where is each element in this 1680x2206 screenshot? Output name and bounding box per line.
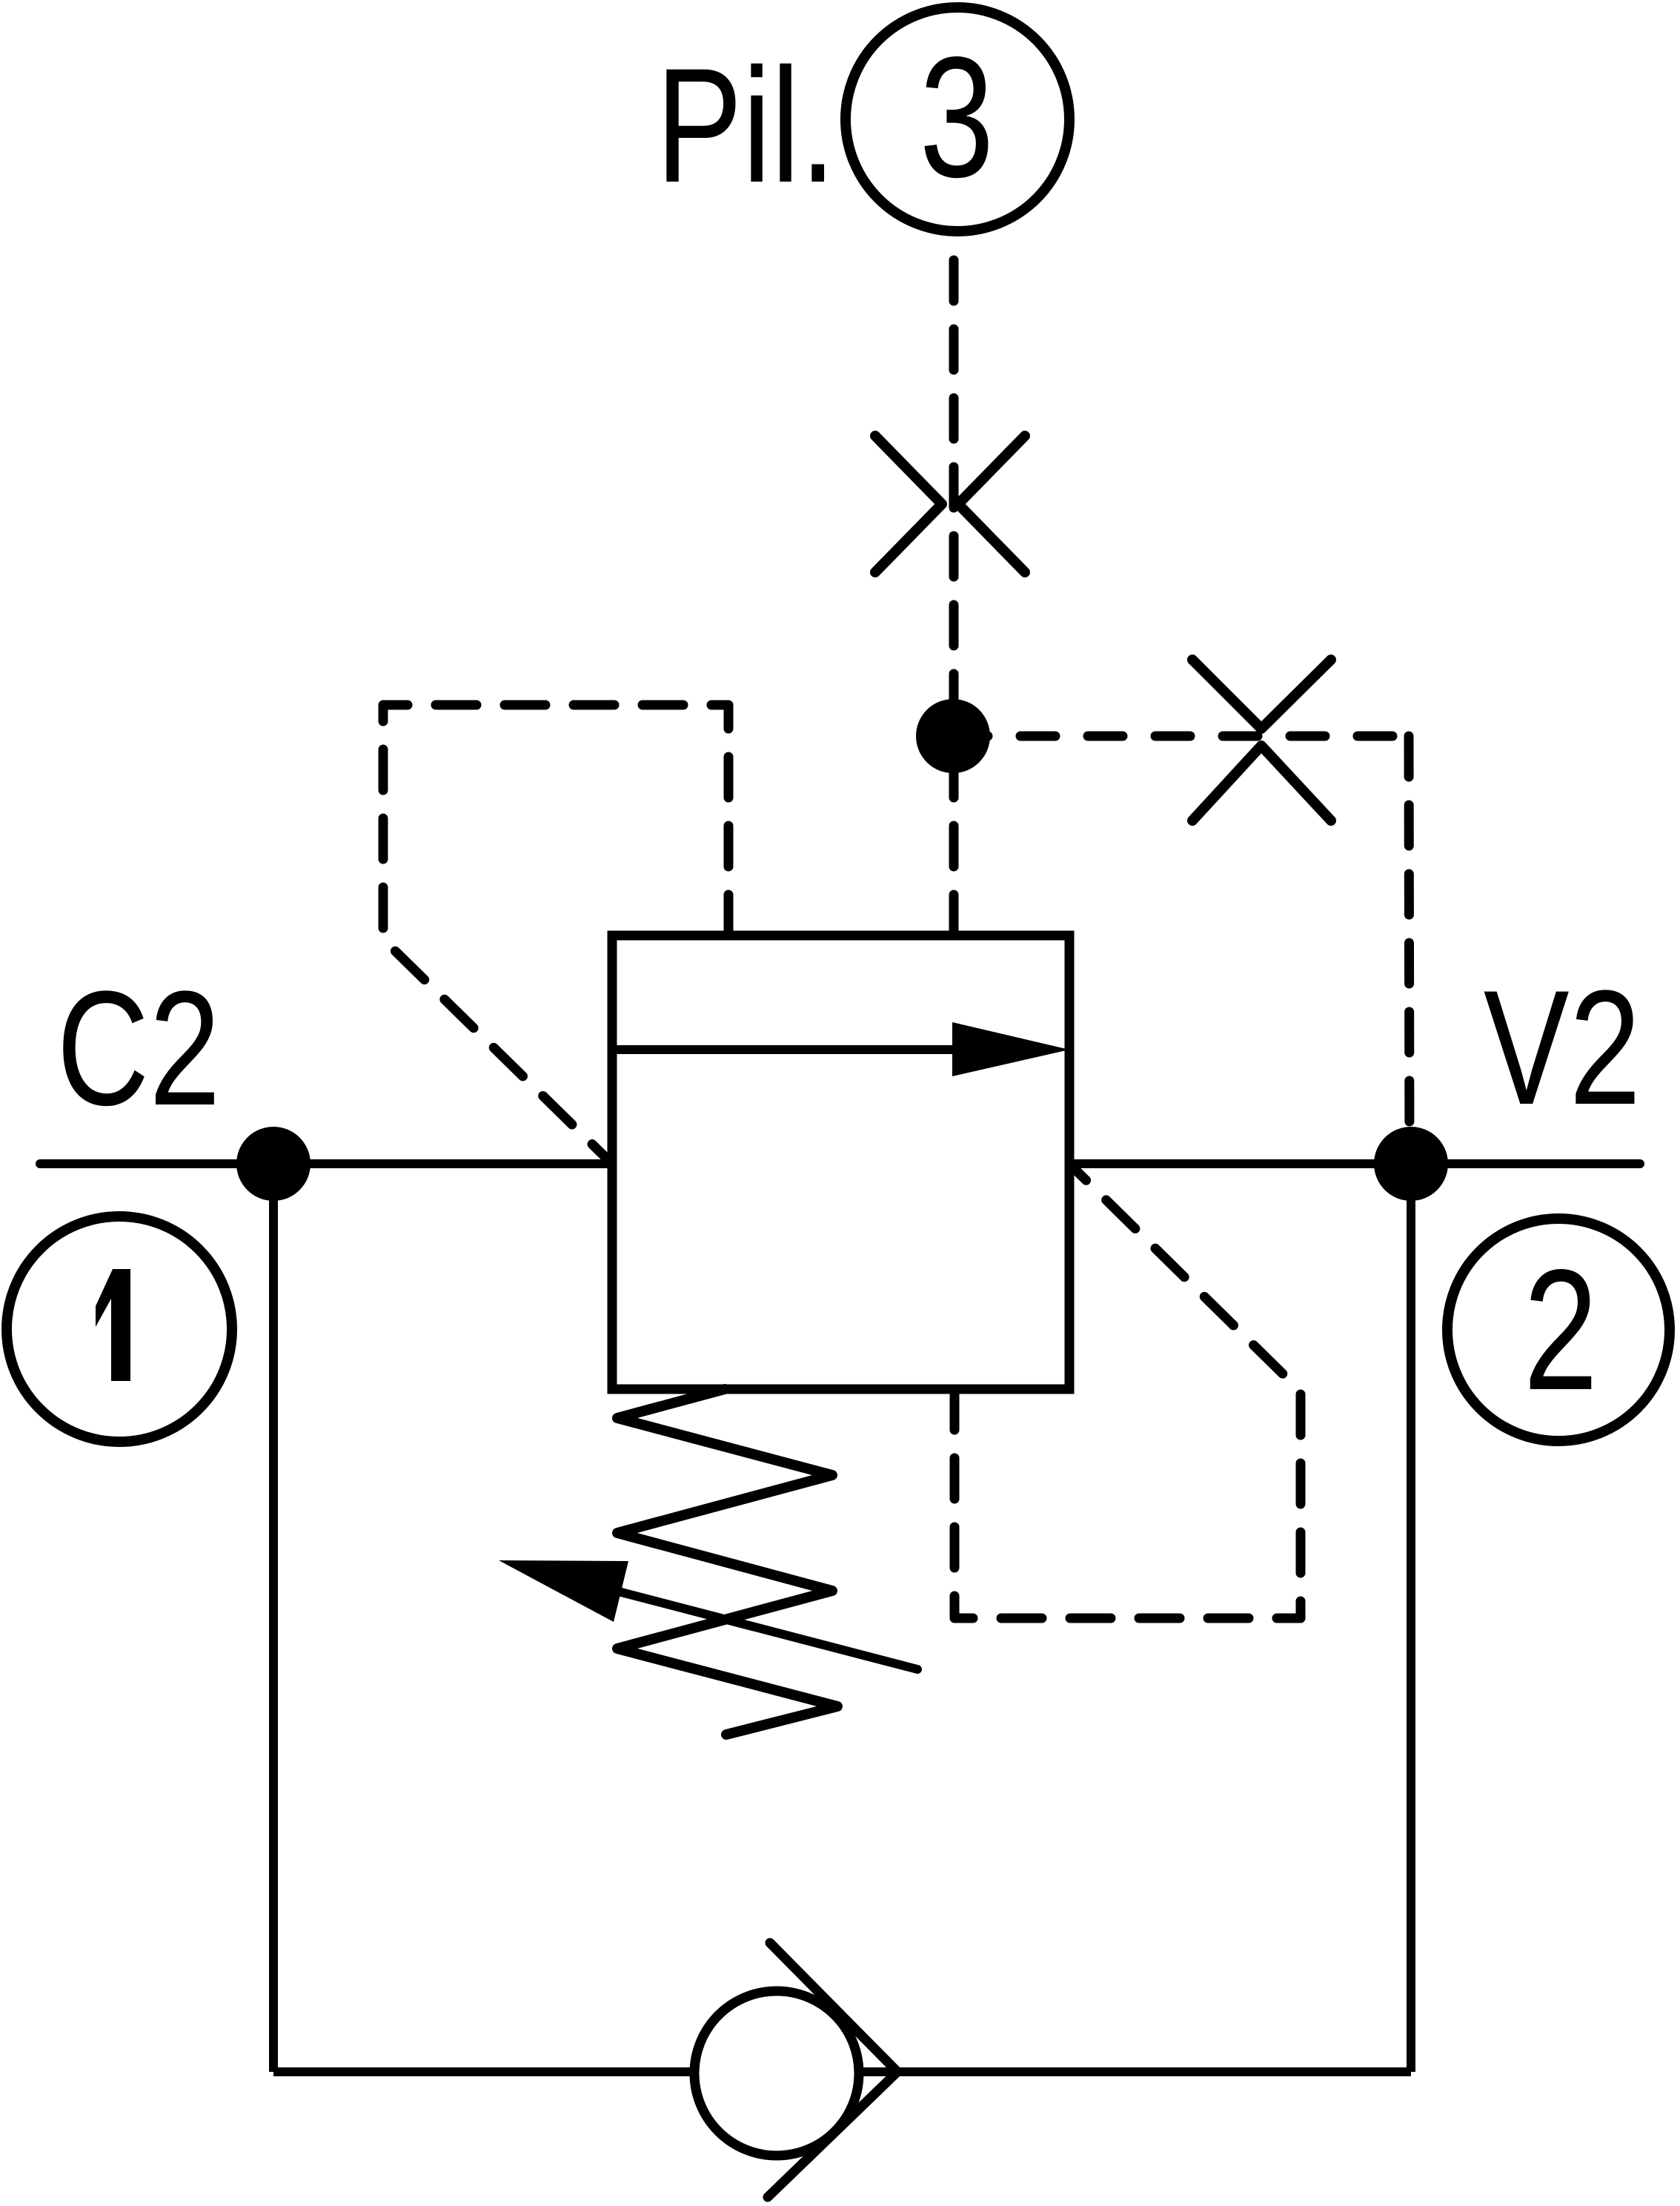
- svg-text:2: 2: [1524, 1234, 1598, 1426]
- wire: dashed pilot loop upper-left: [383, 705, 728, 1164]
- label V2: [1484, 956, 1641, 1138]
- wire: dashed pilot loop lower-right: [954, 1165, 1301, 1618]
- check valve CV1 ball: [694, 1991, 859, 2156]
- spring: [617, 1389, 837, 1735]
- label 1: [96, 1269, 130, 1381]
- node C2: [236, 1127, 311, 1201]
- wire: dashed horizontal from junction to right corner: [953, 732, 1409, 741]
- check valve CV1 seat: [768, 1943, 897, 2197]
- valve body U1 (square): [612, 935, 1069, 1389]
- wire: dashed pilot line from junction down to valve top: [949, 736, 959, 935]
- plugged-port symbol X2 on horizontal dashed line: [1192, 660, 1331, 821]
- svg-text:3: 3: [920, 21, 995, 213]
- label Pil.: [656, 35, 836, 217]
- port circle 1: [7, 1216, 232, 1442]
- svg-text:Pil.: Pil.: [656, 35, 836, 217]
- label C2: [56, 957, 220, 1139]
- wire: dashed vertical from corner down to V2 node: [1409, 736, 1410, 1164]
- wire: left vertical: [269, 1164, 278, 2072]
- svg-text:C2: C2: [56, 957, 220, 1139]
- port circle 2: [1447, 1219, 1670, 1441]
- wire: V2 port line: [1069, 1159, 1640, 1168]
- wire: C2 port line: [40, 1159, 612, 1168]
- wire: dashed pilot line from port 3 down to junction: [949, 245, 959, 736]
- wire: bottom line: [273, 2067, 1411, 2076]
- svg-text:V2: V2: [1484, 956, 1641, 1138]
- plugged-port symbol X1 on pilot line: [875, 436, 1025, 572]
- label 2: [1524, 1234, 1598, 1426]
- wire: right vertical: [1407, 1164, 1415, 2072]
- adjustment arrow through spring: [519, 1566, 917, 1669]
- label 3: [920, 21, 995, 213]
- flow arrow inside valve: [612, 1045, 963, 1054]
- node V2: [1374, 1127, 1448, 1201]
- junction node: [916, 699, 990, 773]
- port circle 3: [846, 7, 1069, 231]
